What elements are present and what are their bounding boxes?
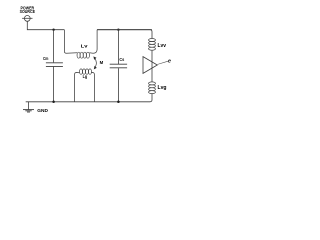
label POWER SOURCE [20, 5, 35, 14]
wire power source to top rail [27, 21, 64, 29]
svg-text:Cs: Cs [119, 57, 124, 62]
inductor Lg [75, 73, 80, 102]
power source terminal [24, 16, 30, 22]
svg-text:Lg: Lg [83, 74, 88, 80]
node bottom rail / Cs [117, 101, 120, 104]
wire through amplifier [151, 50, 153, 82]
node top rail / Cm [52, 29, 54, 31]
wire right branch down from top rail [97, 30, 152, 39]
inductor Lv [64, 30, 77, 54]
ground [28, 102, 30, 110]
inductor Lvv [149, 39, 156, 51]
svg-text:GND: GND [37, 108, 48, 113]
svg-text:Cm: Cm [43, 56, 48, 61]
mutual coupling arrow M [95, 58, 96, 67]
node bottom rail / Cm [52, 101, 55, 104]
svg-text:Lvg: Lvg [158, 85, 167, 91]
wire right branch to bottom rail [26, 94, 152, 102]
capacitor Cs [117, 30, 119, 64]
svg-text:e: e [168, 59, 171, 65]
inductor Lvg [149, 82, 156, 94]
capacitor Cm [53, 30, 55, 63]
wire top rail right [97, 29, 152, 31]
op-amp triangle [143, 57, 157, 74]
node top rail / Cs [117, 29, 119, 31]
svg-text:SOURCE: SOURCE [20, 9, 35, 14]
output line e [158, 61, 168, 64]
svg-text:M: M [100, 60, 104, 65]
svg-text:Lvv: Lvv [158, 43, 167, 49]
svg-text:Lv: Lv [81, 44, 88, 50]
